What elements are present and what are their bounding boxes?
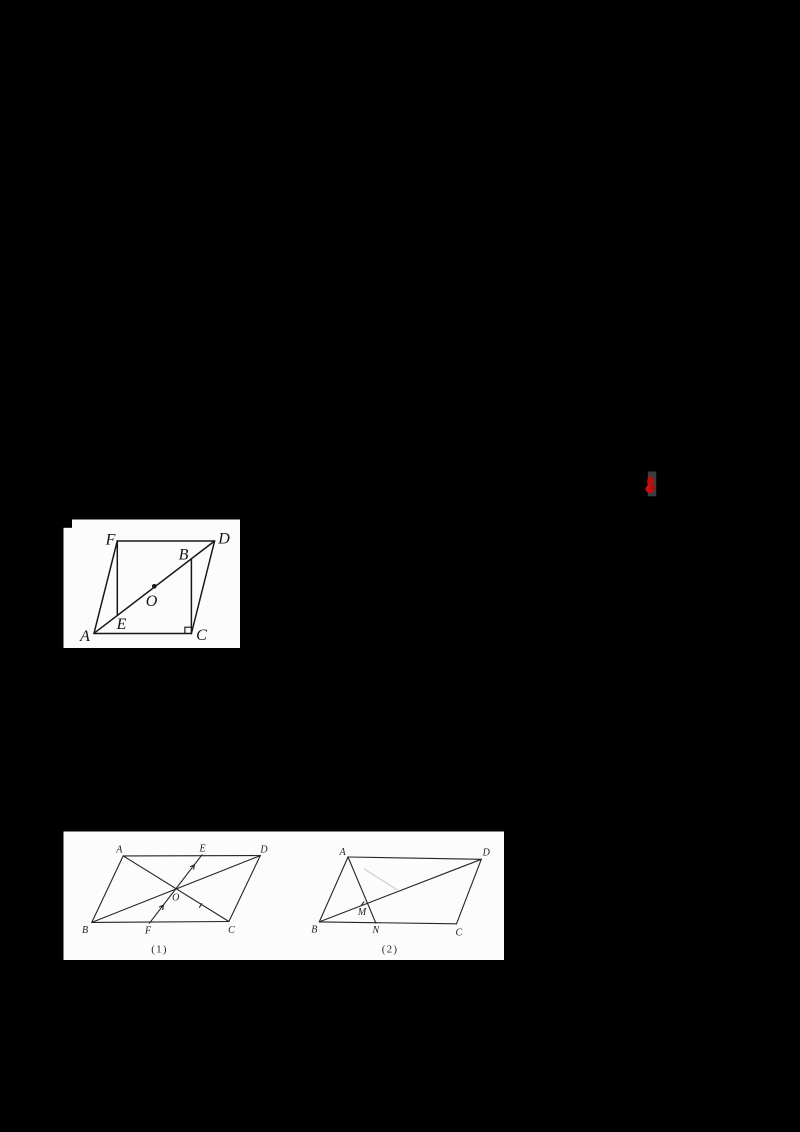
svg-text:F: F [144, 925, 152, 936]
f2 wire AN [348, 857, 376, 923]
svg-text:D: D [259, 845, 268, 856]
svg-text:E: E [116, 616, 127, 633]
svg-text:A: A [79, 628, 90, 645]
f2 diagonal BD [319, 859, 481, 922]
svg-text:C: C [228, 925, 235, 936]
red stamp mark [645, 476, 655, 493]
f1 wire EF [149, 855, 202, 923]
right angle at C [185, 627, 192, 633]
figure 2 panel [64, 832, 505, 961]
wire AC [94, 633, 191, 635]
f1 wire AB [92, 856, 123, 923]
f1 tick on OC [200, 904, 202, 908]
f2 wire AB [319, 857, 348, 922]
f2 crease artifact [364, 869, 398, 890]
f1 tick on EO [190, 865, 194, 869]
svg-text:A: A [338, 847, 346, 858]
f2 wire AD [348, 857, 481, 859]
f1 diagonal BD [92, 856, 260, 923]
figure 1 panel [64, 520, 241, 649]
svg-text:E: E [199, 844, 206, 855]
wire BC [190, 559, 192, 634]
svg-text:(1): (1) [151, 944, 167, 956]
f2 tick on BM [361, 902, 364, 906]
svg-text:D: D [217, 531, 230, 548]
svg-text:N: N [371, 925, 380, 936]
svg-text:B: B [311, 924, 317, 935]
figure 1 corner notch [64, 520, 73, 528]
f1 diagonal AC [123, 856, 229, 922]
f1 wire AD [123, 855, 260, 857]
wire FD [117, 540, 214, 542]
svg-text:F: F [105, 532, 116, 549]
f2 wire BC [319, 922, 456, 924]
wire FE [116, 541, 118, 616]
wire AF [94, 541, 117, 634]
svg-text:C: C [455, 927, 462, 938]
f1 tick on OF [159, 905, 163, 909]
svg-text:D: D [482, 847, 491, 858]
svg-text:M: M [357, 907, 367, 918]
svg-text:O: O [172, 893, 179, 904]
red stamp backdrop [648, 472, 656, 497]
svg-text:B: B [179, 547, 189, 564]
svg-text:O: O [146, 593, 158, 610]
svg-text:A: A [115, 845, 123, 856]
f1 wire DC [229, 856, 260, 922]
f2 wire DC [457, 859, 482, 924]
svg-text:(2): (2) [382, 944, 398, 956]
wire AD diagonal [94, 541, 215, 633]
f1 wire BC [92, 921, 229, 924]
svg-text:B: B [82, 925, 88, 936]
node O dot [152, 584, 157, 589]
wire CD [191, 541, 214, 634]
svg-text:C: C [196, 627, 207, 644]
